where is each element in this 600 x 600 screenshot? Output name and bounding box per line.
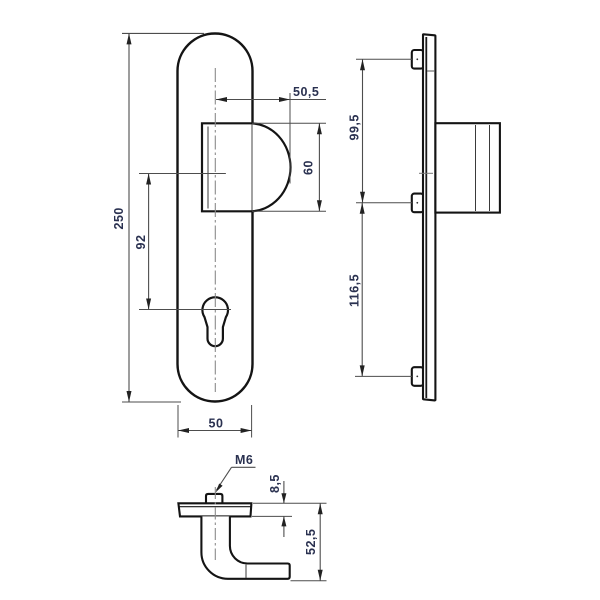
- dimension line 8,5 lower: [283, 516, 285, 537]
- leader M6: [217, 467, 232, 490]
- extension line plate right (50 dim): [251, 405, 253, 438]
- flange / rose (bottom view): [178, 503, 251, 516]
- dimension line 50: [178, 430, 252, 432]
- handle axis tick (side view): [419, 172, 433, 174]
- extension line lever bottom (52,5): [291, 580, 327, 582]
- plate side inner face line: [425, 37, 427, 398]
- arrow 92 top: [146, 174, 151, 185]
- arrow 50,5 left: [216, 97, 227, 102]
- extension line flange bottom (8,5): [252, 515, 292, 517]
- cylinder housing (side view block): [435, 123, 500, 212]
- svg-text:50,5: 50,5: [293, 85, 319, 99]
- screw shank tick: [427, 70, 435, 72]
- arrow 8,5 top: [281, 493, 286, 503]
- extension line mid screw: [356, 202, 412, 204]
- flange step line: [179, 506, 252, 508]
- arrow 116,5 bottom: [360, 365, 365, 376]
- arrow 92 bottom: [146, 299, 151, 310]
- svg-text:116,5: 116,5: [348, 274, 362, 307]
- dimension line 92: [148, 174, 150, 310]
- extension line plate left (50 dim): [177, 405, 179, 438]
- screw head top (side view): [412, 50, 424, 69]
- arrow 116,5 top: [360, 203, 365, 214]
- arrow 52,5 bottom: [318, 570, 323, 581]
- extension line top (250 dim): [122, 32, 204, 34]
- lever seam line: [245, 565, 247, 579]
- arrow 60 top: [317, 123, 322, 134]
- dimension line 99,5: [362, 59, 364, 203]
- plate edge seen through housing: [251, 124, 253, 211]
- svg-text:99,5: 99,5: [348, 114, 362, 140]
- extension line keyhole axis (92 bottom): [139, 309, 231, 311]
- arrow 50 right: [241, 428, 252, 433]
- dimension line 50,5: [216, 99, 326, 101]
- svg-text:60: 60: [302, 160, 316, 175]
- screw head middle (side view): [412, 194, 424, 213]
- M6 screw head (bottom view): [206, 494, 222, 503]
- arrow M6: [216, 484, 223, 493]
- handle lever profile (bottom view): [201, 516, 289, 578]
- extension line bulge tip (50,5): [289, 93, 291, 184]
- handle centerline (bottom view): [214, 487, 216, 560]
- keyhole (euro profile): [202, 297, 228, 346]
- handle axis crosshair (front view): [204, 173, 226, 175]
- arrow 250 top: [127, 33, 132, 44]
- leader M6 shelf: [232, 466, 256, 468]
- svg-text:M6: M6: [235, 453, 253, 467]
- extension line handle axis (92 top): [139, 173, 226, 175]
- svg-text:92: 92: [134, 235, 148, 250]
- arrow 50 left: [178, 428, 189, 433]
- svg-text:52,5: 52,5: [304, 529, 318, 555]
- arrow 99,5 bottom: [360, 192, 365, 203]
- extension line bottom (250 dim): [122, 401, 181, 403]
- dimension line 116,5: [361, 203, 363, 377]
- plate vertical centerline: [214, 68, 216, 392]
- housing side inner line 1: [475, 125, 477, 211]
- arrow 250 bottom: [127, 391, 132, 402]
- arrow 99,5 top: [360, 59, 365, 70]
- svg-text:50: 50: [209, 417, 224, 431]
- dimension line 60: [318, 123, 320, 211]
- dimension line 8,5 upper: [283, 481, 285, 503]
- extension line flange top (8,5 / 52,5): [253, 502, 327, 504]
- dimension line 52,5: [319, 503, 321, 580]
- extension line housing bottom (60 dim): [252, 210, 326, 212]
- extension line bottom screw (116,5): [355, 375, 412, 377]
- plate side profile: [423, 34, 435, 400]
- arrow 52,5 top: [318, 503, 323, 514]
- svg-text:250: 250: [112, 207, 126, 229]
- arrow 60 bottom: [317, 200, 322, 211]
- plate front view (stadium shape): [178, 34, 253, 402]
- housing inner edge line: [207, 127, 209, 209]
- arrow 8,5 bottom: [281, 516, 286, 526]
- arrow 50,5 right: [279, 97, 290, 102]
- housing side inner line 2: [489, 125, 491, 211]
- screw head bottom (side view): [412, 367, 424, 386]
- extension line housing top (60 dim): [252, 122, 326, 124]
- dimension line 250: [128, 33, 130, 402]
- svg-text:8,5: 8,5: [268, 474, 282, 493]
- cylinder housing (front view D shape): [202, 123, 291, 211]
- extension line top screw (99,5): [356, 58, 412, 60]
